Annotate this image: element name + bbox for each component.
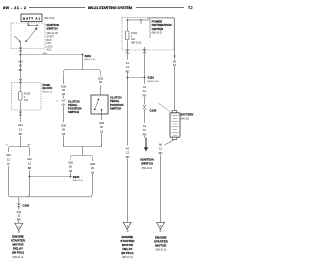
svg-text:LB: LB bbox=[91, 170, 94, 174]
svg-text:(IN PDC): (IN PDC) bbox=[12, 251, 24, 255]
svg-text:A0: A0 bbox=[159, 142, 163, 146]
svg-text:G26: G26 bbox=[68, 160, 73, 164]
svg-text:A0: A0 bbox=[173, 59, 177, 63]
svg-text:BK: BK bbox=[19, 132, 23, 136]
svg-text:G26: G26 bbox=[99, 121, 104, 125]
svg-text:(8W-10-8): (8W-10-8) bbox=[44, 18, 55, 20]
svg-text:RD: RD bbox=[159, 151, 163, 155]
svg-text:FUSE: FUSE bbox=[131, 33, 138, 35]
svg-text:G26: G26 bbox=[90, 162, 95, 166]
svg-text:A41: A41 bbox=[27, 157, 32, 161]
svg-text:A41: A41 bbox=[16, 210, 21, 214]
svg-text:SWITCH: SWITCH bbox=[47, 27, 58, 31]
svg-text:RD: RD bbox=[143, 132, 147, 136]
svg-text:15A: 15A bbox=[24, 99, 29, 102]
svg-text:RUN: RUN bbox=[47, 40, 52, 42]
svg-text:(8W-10-9): (8W-10-9) bbox=[131, 42, 142, 44]
svg-text:OFF: OFF bbox=[47, 43, 52, 45]
svg-text:A1: A1 bbox=[143, 124, 147, 128]
svg-text:C138: C138 bbox=[150, 109, 157, 113]
svg-text:ACC: ACC bbox=[47, 48, 52, 51]
svg-text:(IN PDC): (IN PDC) bbox=[121, 251, 133, 255]
svg-text:A41: A41 bbox=[18, 123, 23, 127]
svg-text:LOCK: LOCK bbox=[47, 46, 54, 48]
svg-text:RD: RD bbox=[126, 155, 130, 159]
svg-text:CENTER: CENTER bbox=[152, 27, 164, 31]
svg-text:S110: S110 bbox=[148, 76, 155, 80]
svg-text:30A: 30A bbox=[131, 38, 136, 41]
svg-text:A1: A1 bbox=[126, 146, 130, 150]
svg-text:SWITCH: SWITCH bbox=[68, 110, 79, 114]
svg-text:A41: A41 bbox=[6, 153, 11, 157]
svg-text:(8W-21-3): (8W-21-3) bbox=[13, 256, 24, 259]
svg-text:S234: S234 bbox=[73, 175, 80, 179]
svg-text:(8W-10-10): (8W-10-10) bbox=[47, 33, 59, 35]
svg-text:G26: G26 bbox=[61, 84, 66, 88]
svg-text:START: START bbox=[47, 36, 55, 39]
svg-text:A1: A1 bbox=[126, 61, 130, 65]
svg-text:(8W-21-3): (8W-21-3) bbox=[155, 249, 166, 252]
svg-text:(8W-15-11): (8W-15-11) bbox=[85, 59, 96, 61]
svg-text:LB: LB bbox=[62, 132, 65, 136]
svg-text:BLOCK: BLOCK bbox=[43, 86, 53, 90]
svg-text:SWITCH: SWITCH bbox=[141, 161, 153, 165]
svg-text:LB: LB bbox=[69, 169, 72, 173]
svg-text:8W-21 STARTING SYSTEM: 8W-21 STARTING SYSTEM bbox=[88, 6, 132, 10]
svg-text:8W - 21 - 2: 8W - 21 - 2 bbox=[3, 6, 26, 10]
svg-text:A1: A1 bbox=[143, 85, 147, 89]
svg-text:BATT A1: BATT A1 bbox=[23, 17, 40, 21]
svg-text:LB: LB bbox=[62, 92, 65, 96]
svg-text:(8W-10-9): (8W-10-9) bbox=[142, 167, 153, 170]
svg-text:(8W-15): (8W-15) bbox=[181, 118, 189, 120]
svg-text:BR: BR bbox=[28, 166, 32, 170]
svg-text:(8W-10-30): (8W-10-30) bbox=[148, 81, 159, 83]
svg-text:BR: BR bbox=[17, 218, 21, 222]
svg-text:SWITCH: SWITCH bbox=[110, 106, 121, 110]
svg-text:G26: G26 bbox=[61, 123, 66, 127]
svg-text:S201: S201 bbox=[85, 54, 92, 58]
svg-text:(8W-11-2): (8W-11-2) bbox=[43, 92, 53, 94]
svg-text:(8W-21-3): (8W-21-3) bbox=[122, 256, 133, 259]
svg-text:LB: LB bbox=[100, 129, 103, 133]
svg-text:RD: RD bbox=[143, 93, 147, 97]
svg-text:(8W-10-2): (8W-10-2) bbox=[152, 32, 163, 34]
svg-text:FUSE: FUSE bbox=[24, 94, 31, 96]
svg-text:C100: C100 bbox=[23, 204, 30, 208]
svg-text:YL: YL bbox=[7, 162, 11, 166]
svg-text:BATTERY: BATTERY bbox=[181, 113, 194, 117]
svg-text:G26: G26 bbox=[98, 76, 103, 80]
svg-text:BR: BR bbox=[27, 145, 30, 147]
svg-text:TJ: TJ bbox=[188, 6, 192, 10]
svg-text:MOTOR: MOTOR bbox=[155, 244, 167, 248]
svg-text:(8W-21-4): (8W-21-4) bbox=[73, 180, 83, 182]
